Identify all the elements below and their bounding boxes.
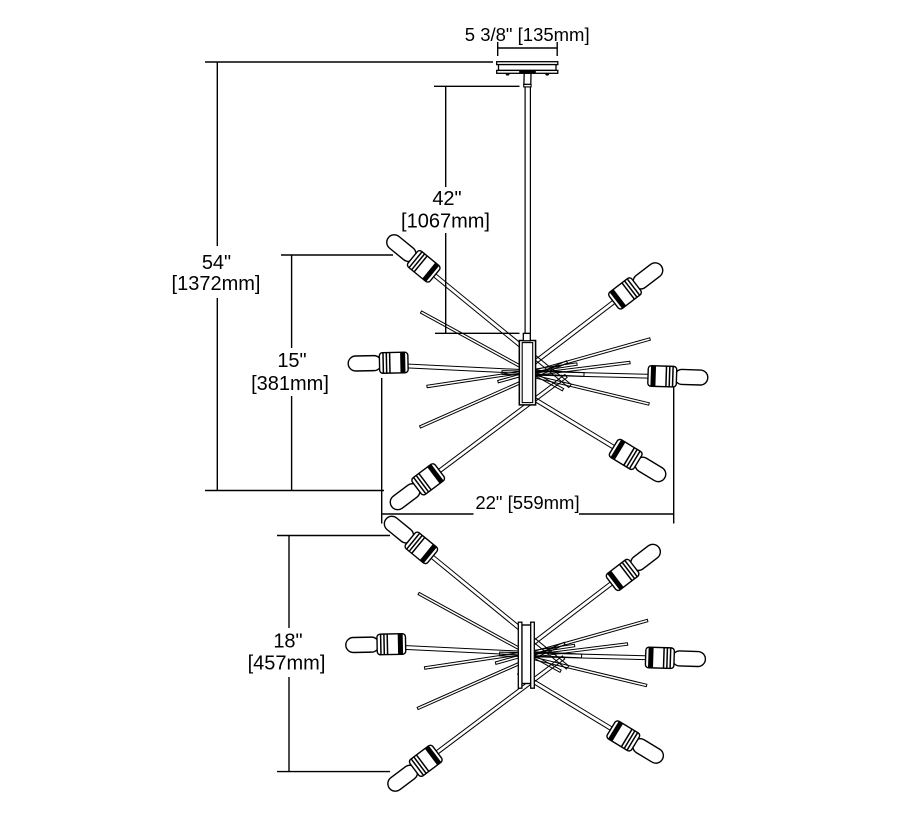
lamp upper-left bulb (380, 511, 439, 565)
arm of lamp upper-left bulb (431, 271, 572, 387)
canopy neck (524, 73, 531, 84)
central hub right rail (531, 622, 535, 688)
rod lower-right (522, 372, 650, 405)
arm of lamp lower-left bulb (435, 375, 567, 475)
central hub left rail (518, 622, 522, 688)
arm of lamp right bulb (502, 371, 652, 379)
canopy screw right (545, 74, 549, 76)
downrod stem (525, 87, 530, 334)
rod mid-right (521, 361, 630, 377)
dimension 22" [559mm] fixture width (382, 378, 674, 524)
dimension 42" [1067mm] stem length (401, 86, 519, 333)
rod upper-left (420, 311, 563, 391)
lamp right bulb (648, 366, 708, 388)
rod upper-left (418, 592, 561, 672)
arm of lamp upper-right bulb (520, 580, 615, 654)
lamp upper-right bulb (605, 539, 665, 592)
svg-text:54": 54" (202, 252, 231, 274)
svg-text:[381mm]: [381mm] (251, 373, 329, 395)
lamp right bulb (645, 647, 705, 669)
lamp lower-right bulb (606, 720, 668, 769)
dimension 15" [381mm] fixture height (251, 255, 393, 491)
rod lower-left (417, 642, 565, 709)
svg-text:22" [559mm]: 22" [559mm] (475, 492, 579, 513)
lamp lower-left bulb (386, 463, 446, 515)
canopy black collar (519, 70, 536, 73)
rod mid-right (518, 643, 627, 659)
arm of lamp lower-right bulb (520, 389, 618, 450)
svg-text:18": 18" (273, 631, 302, 653)
rod lower-left (420, 361, 568, 428)
canopy screw left (506, 74, 510, 76)
hub neck (523, 333, 530, 340)
central hub body (519, 341, 535, 405)
rod upper-right (498, 338, 651, 383)
rod mid-left (424, 644, 574, 669)
canopy bottom flange (497, 70, 558, 73)
dimension 54" [1372mm] overall height (172, 62, 493, 491)
lamp lower-right bulb (608, 438, 670, 487)
arm of lamp left bulb (402, 645, 582, 658)
lamp left bulb (348, 352, 408, 374)
dimension 5 3/8" [135mm] canopy width (465, 24, 590, 56)
rod upper-right (495, 619, 648, 664)
central hub panel (522, 625, 531, 684)
arm of lamp lower-left bulb (433, 656, 565, 756)
rod mid-left (427, 363, 577, 388)
arm of lamp right bulb (500, 652, 650, 660)
lamp left bulb (346, 634, 406, 656)
arm of lamp lower-right bulb (518, 671, 616, 732)
svg-text:42": 42" (432, 188, 461, 210)
lamp upper-left bulb (382, 230, 441, 284)
rod lower-right (519, 654, 647, 687)
svg-text:[457mm]: [457mm] (248, 653, 326, 675)
svg-text:15": 15" (277, 350, 306, 372)
canopy body (499, 65, 557, 71)
svg-text:[1067mm]: [1067mm] (401, 211, 490, 233)
canopy top flange (497, 62, 558, 65)
arm of lamp upper-left bulb (428, 553, 569, 669)
lamp upper-right bulb (607, 258, 667, 311)
arm of lamp left bulb (404, 364, 584, 377)
dimension 18" [457mm] bottom fixture height (248, 536, 390, 772)
lamp lower-left bulb (383, 744, 443, 796)
svg-text:5 3/8" [135mm]: 5 3/8" [135mm] (465, 24, 590, 45)
svg-text:[1372mm]: [1372mm] (172, 273, 261, 295)
arm of lamp upper-right bulb (523, 298, 618, 372)
